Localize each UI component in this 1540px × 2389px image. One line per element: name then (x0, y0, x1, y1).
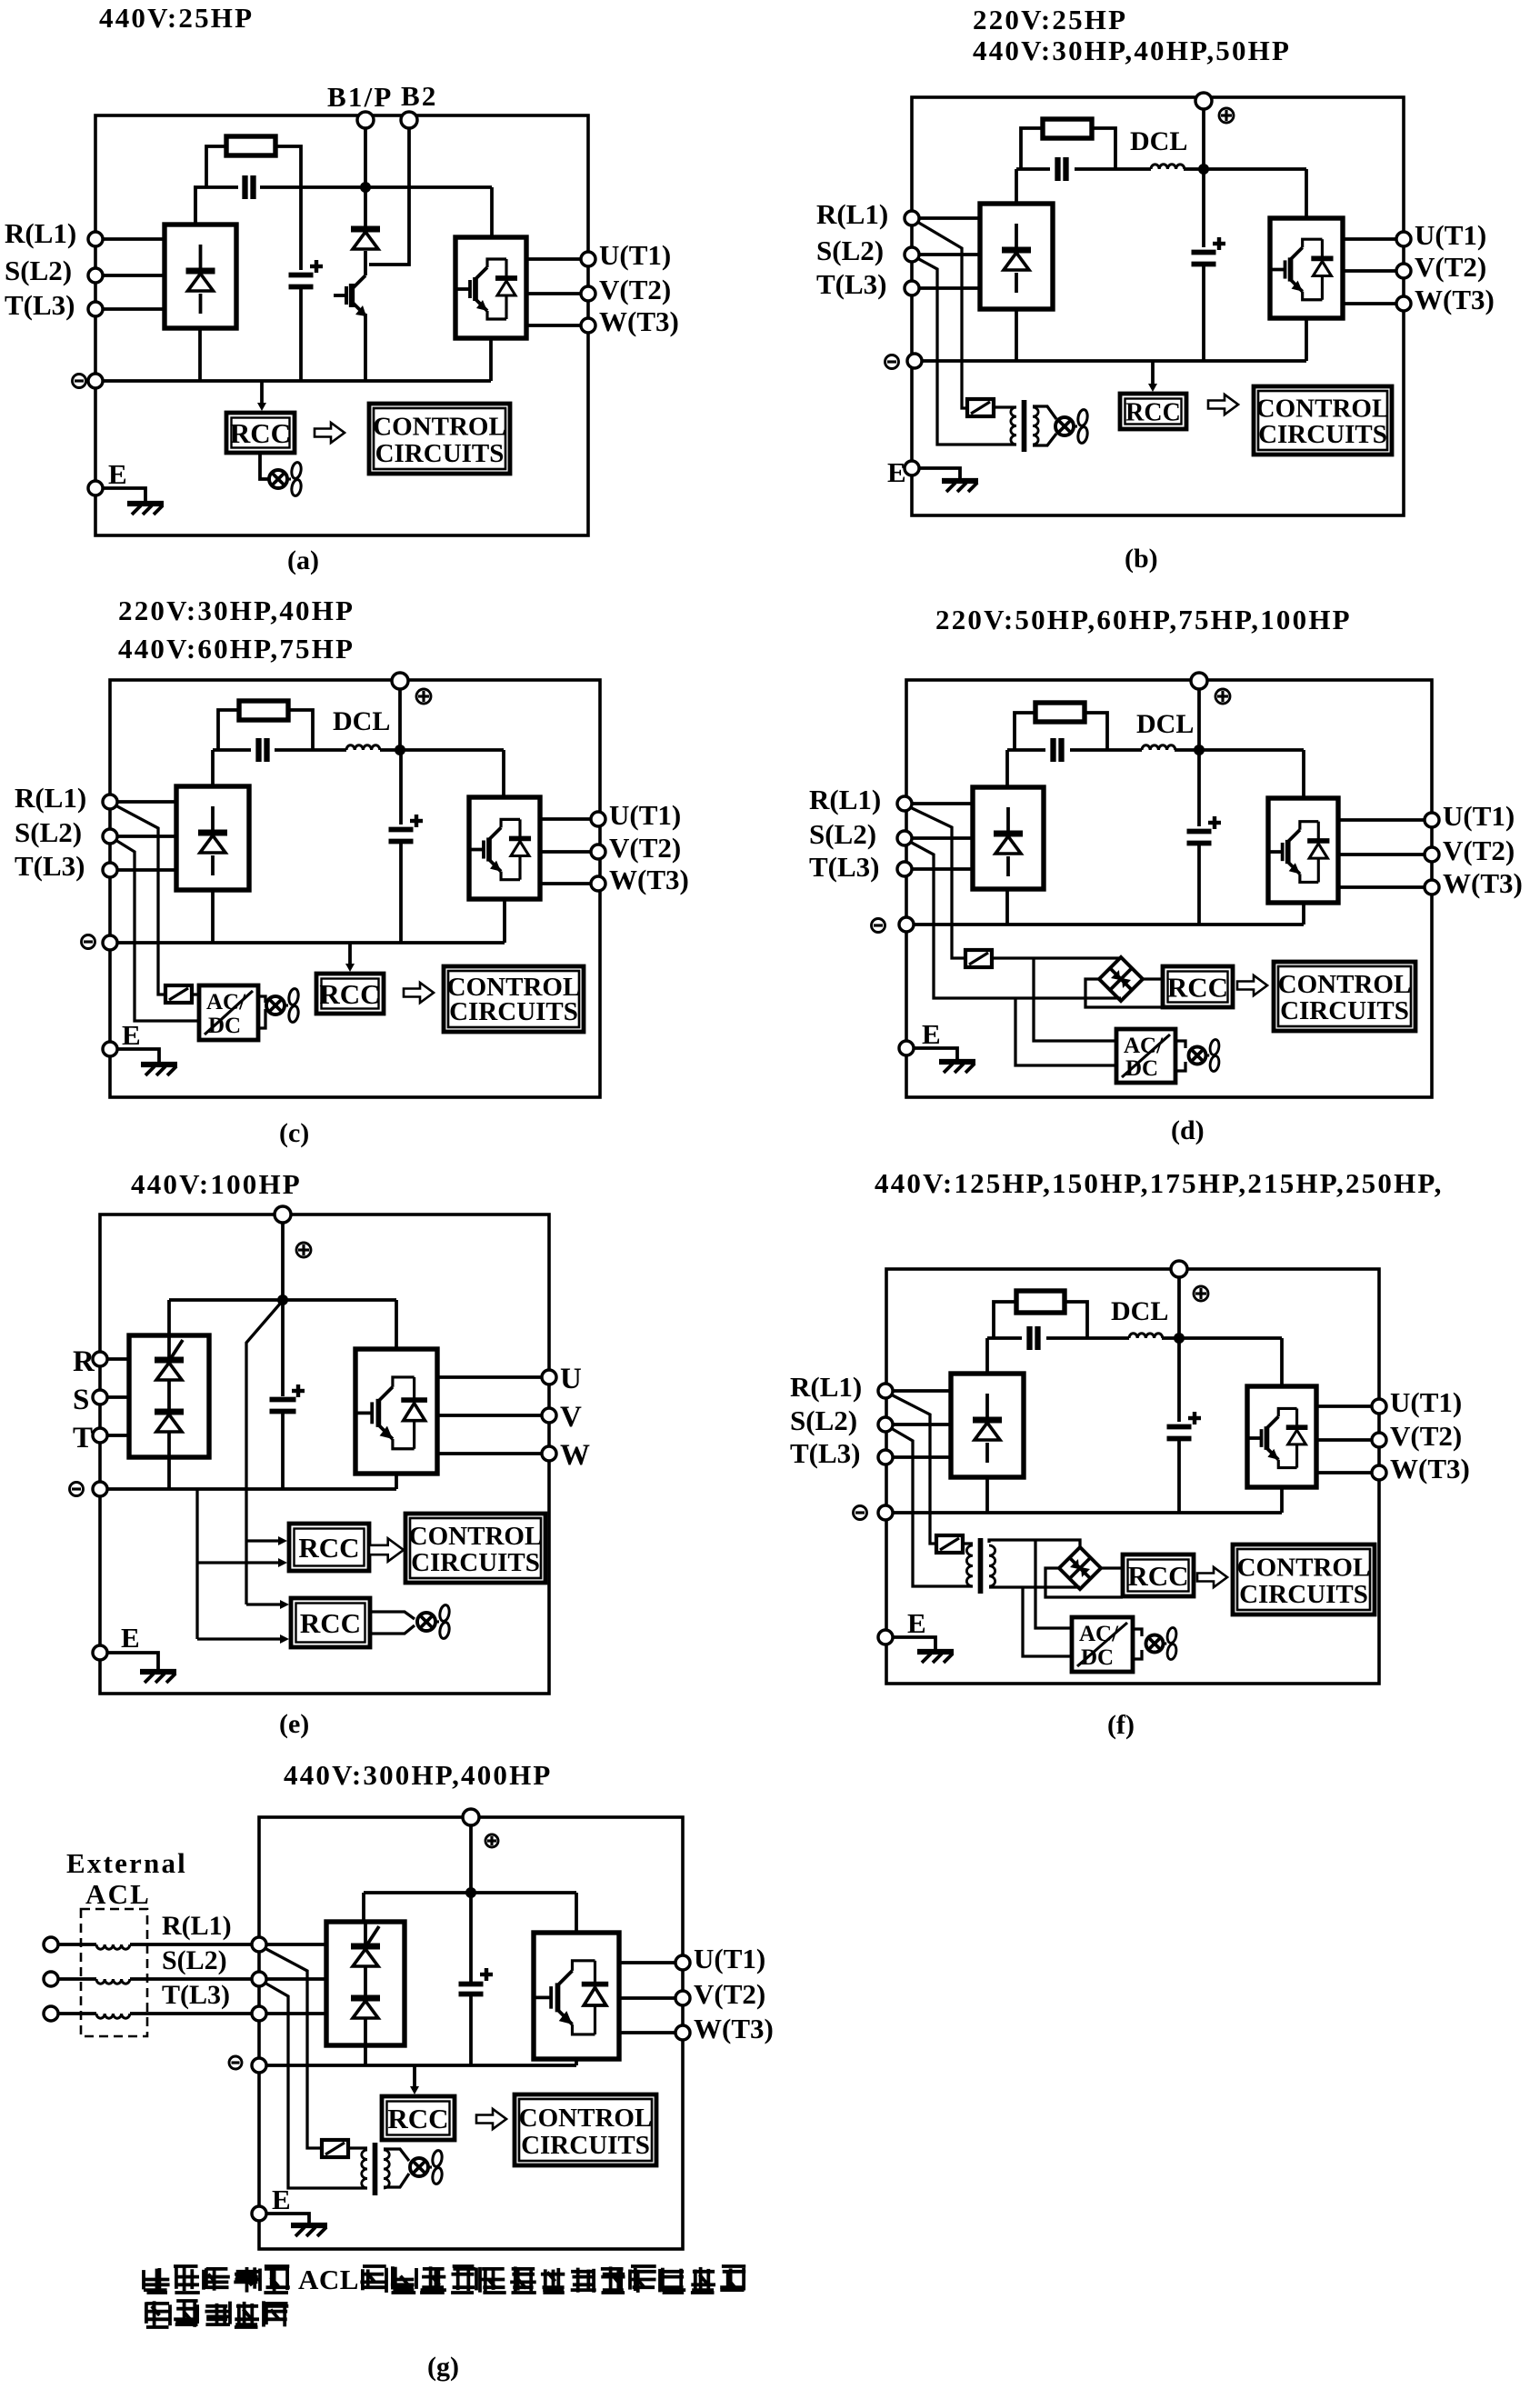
svg-text:CONTROL: CONTROL (519, 2104, 653, 2133)
svg-text:E: E (121, 1622, 140, 1654)
wire rectifier top to DC+ bus (194, 187, 197, 225)
diagram (b) enclosure (912, 97, 1404, 515)
terminal W(T3) (591, 876, 605, 891)
inverter bridge U2 (355, 1349, 437, 1474)
wire R input (117, 800, 176, 804)
svg-text:V(T2): V(T2) (599, 274, 671, 305)
terminal S(L2) (252, 1972, 266, 1986)
wire rectifier bottom (985, 1478, 989, 1513)
wire DC+ bus (213, 748, 251, 752)
wire resistor left leg (206, 146, 226, 187)
AC/DC converter (1116, 1029, 1175, 1083)
wire S phase tap (910, 842, 1121, 998)
wire T input (266, 2012, 326, 2015)
RCC box (226, 413, 295, 453)
svg-text:AC/: AC/ (1079, 1622, 1119, 1646)
ground (117, 1049, 159, 1064)
wire tap to AC/DC lower (1015, 998, 1116, 1065)
svg-text:(d): (d) (1171, 1115, 1205, 1145)
svg-text:V(T2): V(T2) (694, 1978, 765, 2010)
wire tap to AC/DC upper (1035, 1540, 1072, 1628)
wire V output (437, 1414, 542, 1417)
diagram (a) enclosure (95, 115, 588, 535)
svg-text:R(L1): R(L1) (15, 782, 86, 814)
wire V output (1338, 853, 1425, 856)
svg-text:CIRCUITS: CIRCUITS (1280, 996, 1409, 1025)
terminal E (88, 481, 103, 495)
wire AC/DC to fan (1133, 1629, 1142, 1636)
AC/DC converter (1072, 1617, 1133, 1672)
svg-text:R(L1): R(L1) (5, 217, 76, 249)
svg-text:CIRCUITS: CIRCUITS (375, 439, 505, 468)
CONTROL CIRCUITS box (405, 1514, 545, 1583)
wire DC- bus (915, 359, 1306, 363)
snubber capacitor C1 (255, 738, 261, 762)
wire rectifier bottom (364, 2045, 367, 2065)
svg-text:T(L3): T(L3) (809, 851, 880, 883)
svg-text:DCL: DCL (333, 706, 390, 736)
diagram (g) enclosure (259, 1817, 683, 2249)
rectifier bridge U1 (326, 1922, 405, 2045)
svg-text:E: E (122, 1019, 141, 1051)
wire tap to RCC1 lower (197, 1561, 280, 1564)
RCC box 2 (291, 1598, 370, 1647)
svg-text:CONTROL: CONTROL (1256, 395, 1390, 424)
wire U output (526, 257, 581, 261)
wire DC plus to junction (1177, 1277, 1181, 1338)
terminal DC minus (82, 935, 95, 949)
terminal DC plus (1195, 93, 1212, 109)
terminal V(T2) (581, 286, 595, 301)
wire inverter bottom (1305, 319, 1308, 361)
svg-text:U: U (560, 1363, 582, 1395)
wire rectifier bottom to DC- bus (198, 328, 202, 381)
node DC bus junction (395, 745, 405, 755)
svg-text:440V:30HP,40HP,50HP: 440V:30HP,40HP,50HP (973, 35, 1291, 66)
terminal DC plus (463, 1809, 479, 1825)
svg-text:T: T (73, 1422, 94, 1454)
svg-text:RCC: RCC (1127, 1560, 1188, 1592)
wire U output (1316, 1404, 1372, 1408)
svg-text:DCL: DCL (1136, 709, 1194, 739)
wire RCC to cooling fan (260, 452, 268, 479)
wire W output (526, 324, 581, 327)
wire relay to transformer (348, 2146, 367, 2149)
terminal W(T3) (581, 318, 595, 333)
wire resistor legs (218, 710, 239, 750)
arrow RCC to control (404, 983, 434, 1003)
DC link capacitor C2 (299, 187, 303, 270)
CONTROL CIRCUITS box (1233, 1544, 1375, 1614)
terminal V(T2) (1396, 264, 1411, 278)
wire AC/DC to fan (258, 996, 265, 1003)
node DC bus junction (465, 1887, 476, 1898)
terminal V(T2) (675, 1991, 690, 2005)
wire W output (1343, 302, 1396, 305)
wire DC+ bus (169, 1298, 283, 1302)
diode bridge B1 (1059, 1547, 1101, 1589)
svg-text:440V:100HP: 440V:100HP (131, 1168, 302, 1200)
terminal W(T3) (1425, 880, 1439, 895)
terminal U(T1) (1425, 813, 1439, 827)
svg-text:440V:300HP,400HP: 440V:300HP,400HP (284, 1759, 553, 1791)
wire S phase tap (265, 1983, 367, 2188)
ground (893, 1637, 935, 1651)
wire relay to AC/DC (192, 993, 199, 995)
wire W output (540, 882, 591, 885)
arrow RCC to control (476, 2109, 506, 2129)
wire S input (919, 253, 980, 256)
svg-text:V: V (560, 1401, 582, 1434)
svg-text:E: E (272, 2184, 291, 2215)
arrow RCC1 to control (369, 1538, 404, 1561)
node DC bus junction (1174, 1333, 1185, 1344)
wire S input (117, 835, 176, 838)
relay K1 (165, 985, 192, 1003)
diagram (e) enclosure (100, 1214, 549, 1694)
terminal S line input (44, 1972, 58, 1986)
terminal DC minus (70, 1483, 84, 1496)
cooling fan M1 (269, 470, 287, 488)
wire R phase tap (265, 1948, 322, 2148)
wire W output (437, 1452, 542, 1455)
wire T input (117, 868, 176, 872)
svg-text:E: E (887, 456, 906, 488)
wire U output (1338, 818, 1425, 822)
svg-text:RCC: RCC (230, 417, 291, 449)
terminal T(L3) (252, 2006, 266, 2021)
svg-text:E: E (907, 1607, 926, 1639)
svg-text:V(T2): V(T2) (1390, 1420, 1462, 1452)
wire B1/P to DC bus junction (364, 128, 367, 185)
wire inverter bottom (1280, 1487, 1284, 1513)
wire DC+ bus (364, 1891, 471, 1894)
snubber resistor R1 (239, 701, 288, 720)
svg-text:AC/: AC/ (206, 990, 246, 1015)
terminal R(L1) (252, 1937, 266, 1952)
arrow RCC to control (315, 423, 345, 443)
snubber capacitor C1 (1026, 1326, 1032, 1350)
inductor DCL (1151, 165, 1185, 169)
wire S phase tap (115, 840, 199, 1021)
wire rectifier bottom (167, 1457, 171, 1489)
svg-text:S: S (73, 1384, 90, 1416)
svg-text:RCC: RCC (1167, 972, 1228, 1004)
terminal DC minus (229, 2056, 242, 2069)
svg-text:CONTROL: CONTROL (373, 413, 506, 442)
inductor DCL (1142, 745, 1175, 750)
svg-text:W(T3): W(T3) (609, 864, 689, 895)
DC link capacitor C2 (1177, 1343, 1181, 1422)
terminal W(T3) (1396, 296, 1411, 311)
snubber resistor R1 (1016, 1291, 1065, 1313)
snubber capacitor C1 (242, 175, 247, 199)
wire DC- bus (906, 923, 1304, 926)
svg-text:220V:50HP,60HP,75HP,100HP: 220V:50HP,60HP,75HP,100HP (935, 604, 1352, 635)
ground (919, 468, 960, 480)
wire tap to RCC2 lower (197, 1637, 282, 1640)
inductor ACL T phase (58, 2012, 96, 2015)
wire rectifier bottom (1015, 310, 1018, 361)
wire S input (912, 836, 973, 840)
wire DC plus to junction (398, 689, 402, 750)
svg-text:DCL: DCL (1111, 1296, 1168, 1326)
svg-text:440V:125HP,150HP,175HP,215HP,2: 440V:125HP,150HP,175HP,215HP,250HP, (875, 1167, 1444, 1199)
DC link capacitor C2 (1197, 755, 1201, 826)
RCC box (1120, 394, 1186, 429)
wire resistor legs (994, 1302, 1016, 1338)
snubber capacitor C1 (1050, 738, 1055, 762)
rectifier bridge U1 (980, 204, 1053, 309)
cooling fan M1 (417, 1613, 435, 1631)
snubber resistor R1 (1035, 703, 1085, 722)
svg-text:220V:25HP: 220V:25HP (973, 4, 1127, 35)
rectifier bridge U1 (165, 225, 236, 328)
DC link capacitor C2 (399, 755, 403, 825)
wire DC+ bus (194, 185, 238, 189)
terminal R line input (44, 1937, 58, 1952)
svg-text:(f): (f) (1107, 1710, 1135, 1740)
svg-text:W(T3): W(T3) (1443, 867, 1523, 899)
svg-text:S(L2): S(L2) (809, 818, 876, 850)
wire bridge left to RCC (1045, 1568, 1123, 1597)
wire rectifier bottom (1005, 890, 1009, 925)
terminal DC plus (1171, 1261, 1187, 1277)
cooling fan M1 (1146, 1635, 1164, 1653)
wire T input (919, 286, 980, 290)
wire R phase tap (917, 222, 967, 408)
terminal E (878, 1630, 893, 1644)
terminal E (93, 1645, 107, 1660)
terminal E (252, 2206, 266, 2221)
snubber resistor R1 (1043, 119, 1092, 138)
snubber capacitor C1 (1055, 157, 1060, 181)
relay K1 (322, 2140, 348, 2157)
svg-text:CIRCUITS: CIRCUITS (521, 2131, 650, 2160)
svg-text:T(L3): T(L3) (5, 289, 75, 321)
svg-text:CONTROL: CONTROL (409, 1522, 543, 1551)
svg-text:(c): (c) (279, 1118, 309, 1148)
svg-text:External: External (66, 1847, 187, 1879)
node DC bus junction (277, 1294, 288, 1305)
AC/DC converter (199, 985, 258, 1040)
svg-text:(b): (b) (1125, 544, 1158, 574)
wire R phase tap (891, 1394, 936, 1544)
terminal DC plus (275, 1206, 291, 1223)
svg-text:V(T2): V(T2) (1443, 835, 1515, 866)
wire DC- bus (885, 1511, 1282, 1514)
wire DC- bus to RCC (1151, 361, 1155, 385)
inverter bridge U2 (455, 237, 526, 338)
svg-text:E: E (922, 1018, 941, 1050)
svg-text:U(T1): U(T1) (1443, 800, 1515, 832)
wire bridge left to RCC (1085, 979, 1163, 1007)
inverter bridge U2 (1247, 1386, 1316, 1487)
svg-text:W(T3): W(T3) (599, 305, 679, 337)
wire R input (107, 1357, 129, 1361)
terminal V(T2) (1372, 1433, 1386, 1447)
terminal B2 (401, 112, 417, 128)
inverter bridge U2 (469, 797, 540, 899)
terminal E (103, 1042, 117, 1056)
rectifier bridge U1 (129, 1335, 209, 1457)
note ACL caption line 1 (145, 2278, 170, 2282)
svg-text:CIRCUITS: CIRCUITS (1258, 420, 1387, 449)
terminal U(T1) (675, 1955, 690, 1970)
relay K1 (967, 399, 994, 416)
terminal V(T2) (591, 845, 605, 859)
terminal DC minus (872, 919, 885, 933)
svg-text:W(T3): W(T3) (1415, 284, 1495, 315)
svg-text:S(L2): S(L2) (790, 1404, 857, 1436)
RCC box (316, 974, 384, 1014)
svg-text:DC: DC (1081, 1645, 1114, 1670)
svg-text:R(L1): R(L1) (162, 1911, 232, 1941)
terminal DC minus (73, 375, 86, 388)
wire bridge right to RCC (1101, 1566, 1123, 1569)
terminal U(T1) (1372, 1399, 1386, 1414)
wire resistor legs (1015, 713, 1035, 750)
terminal U(T1) (1396, 232, 1411, 246)
wire DC- bus to RCC (413, 2065, 416, 2088)
terminal DC minus (854, 1506, 867, 1520)
CONTROL CIRCUITS box (515, 2094, 656, 2165)
brake diode D1 (364, 187, 367, 229)
terminal U (542, 1370, 556, 1384)
svg-text:U(T1): U(T1) (1390, 1386, 1462, 1418)
svg-text:ACL: ACL (85, 1878, 151, 1910)
terminal W(T3) (1372, 1465, 1386, 1480)
svg-text:W(T3): W(T3) (1390, 1453, 1470, 1484)
svg-text:DCL: DCL (1130, 126, 1187, 156)
rectifier bridge U1 (176, 786, 249, 890)
svg-text:RCC: RCC (387, 2103, 448, 2134)
wire inverter bottom (503, 900, 506, 943)
wire relay to transformer (963, 1542, 973, 1544)
brake transistor Q1 (364, 265, 367, 275)
wire B2 to chopper midpoint (369, 128, 409, 265)
wire rectifier bottom (211, 891, 215, 943)
wire secondary to bridge top (989, 1540, 1080, 1547)
wire DC- bus (100, 1487, 396, 1491)
wire secondary to bridge bottom (989, 1585, 1080, 1588)
wire T input (103, 307, 165, 311)
diagram (f) enclosure (886, 1269, 1379, 1684)
wire tap to RCC2 upper (246, 1603, 282, 1605)
svg-text:V(T2): V(T2) (1415, 251, 1486, 283)
CONTROL CIRCUITS box (369, 404, 510, 474)
svg-text:V(T2): V(T2) (609, 832, 681, 864)
wire inverter bottom (395, 1474, 398, 1489)
transformer T1 (362, 2150, 367, 2188)
wire resistor right leg (275, 146, 301, 187)
svg-text:U(T1): U(T1) (599, 239, 671, 271)
svg-text:220V:30HP,40HP: 220V:30HP,40HP (118, 595, 355, 626)
ground (103, 488, 145, 503)
diagram (c) enclosure (110, 680, 600, 1097)
svg-text:U(T1): U(T1) (1415, 219, 1486, 251)
svg-text:CONTROL: CONTROL (1278, 970, 1412, 999)
wire resistor legs (1021, 128, 1043, 169)
wire R phase tap (115, 805, 165, 995)
DC link capacitor C2 (1202, 174, 1205, 247)
wire W output (619, 2031, 675, 2034)
wire S input (107, 1395, 129, 1399)
svg-text:S(L2): S(L2) (15, 816, 82, 848)
terminal U(T1) (581, 252, 595, 266)
wire inverter bottom to DC- bus (489, 338, 493, 381)
wire V output (619, 1996, 675, 2000)
svg-text:S(L2): S(L2) (5, 255, 72, 286)
cooling fan M1 (1055, 417, 1074, 435)
wire U output (437, 1375, 542, 1379)
svg-text:RCC: RCC (1125, 399, 1181, 427)
RCC box (382, 2096, 455, 2140)
terminal T line input (44, 2006, 58, 2021)
svg-text:(g): (g) (427, 2352, 459, 2382)
svg-text:U(T1): U(T1) (694, 1943, 765, 1974)
terminal U(T1) (591, 812, 605, 826)
wire DC- bus (95, 379, 491, 383)
wire relay to bridge (992, 956, 1121, 959)
svg-text:S(L2): S(L2) (162, 1945, 227, 1975)
wire AC/DC to fan (1175, 1041, 1185, 1048)
inductor ACL S phase (58, 1977, 96, 1981)
arrow RCC to control (1208, 395, 1238, 415)
svg-text:S(L2): S(L2) (816, 235, 884, 266)
ground (107, 1653, 158, 1671)
ground (914, 1048, 957, 1061)
cooling fan M1 (1189, 1047, 1206, 1065)
inverter bridge U2 (534, 1933, 619, 2059)
svg-text:R(L1): R(L1) (790, 1371, 862, 1403)
wire W output (1338, 885, 1425, 889)
wire DC plus to junction (1197, 689, 1201, 750)
wire R input (919, 216, 980, 220)
diagram (d) enclosure (906, 680, 1432, 1097)
inductor DCL (1129, 1334, 1163, 1338)
terminal DC plus (1191, 673, 1207, 689)
wire DC+ bus (1016, 167, 1050, 171)
cooling fan M1 (410, 2158, 428, 2176)
wire DC plus to junction (1202, 109, 1205, 169)
terminal E (899, 1041, 914, 1055)
terminal DC plus (392, 673, 408, 689)
node B1/P junction (360, 182, 371, 193)
wire DC+ tap to RCC supply (246, 1303, 281, 1604)
RCC box (1163, 966, 1233, 1007)
terminal DC minus (885, 355, 899, 369)
DC link capacitor C1 (281, 1304, 285, 1396)
terminal V (542, 1408, 556, 1423)
wire secondary to lamp (384, 2149, 409, 2161)
svg-text:CIRCUITS: CIRCUITS (449, 997, 578, 1026)
wire V output (1316, 1438, 1372, 1442)
svg-text:ACL: ACL (298, 2264, 359, 2295)
svg-text:R(L1): R(L1) (809, 784, 881, 815)
terminal W (542, 1446, 556, 1461)
svg-text:AC/: AC/ (1124, 1034, 1164, 1058)
terminal B1/P (357, 112, 374, 128)
node DC bus junction (1198, 164, 1209, 175)
svg-text:440V:60HP,75HP: 440V:60HP,75HP (118, 633, 355, 665)
inductor ACL R phase (58, 1943, 96, 1946)
transformer T1 (966, 1545, 973, 1586)
svg-text:R(L1): R(L1) (816, 198, 888, 230)
wire relay to transformer (994, 405, 1016, 408)
wire V output (540, 850, 591, 854)
terminal W(T3) (675, 2025, 690, 2040)
